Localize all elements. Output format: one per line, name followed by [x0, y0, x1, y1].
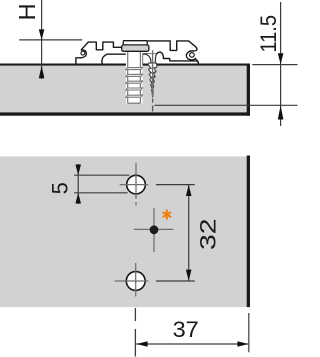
chipboard screw thread crests — [149, 67, 156, 90]
svg-text:5: 5 — [47, 182, 72, 194]
svg-text:H: H — [14, 3, 40, 20]
svg-text:32: 32 — [195, 218, 220, 250]
system screw hole top (5mm) — [120, 163, 149, 205]
svg-text:37: 37 — [173, 317, 199, 342]
chipboard screw (threaded, tapered) in panel — [148, 63, 157, 97]
chipboard screw centerline — [152, 50, 154, 111]
chipboard screw countersink funnel — [145, 54, 157, 64]
euro screw (pre-mounted system screw) shank in panel — [126, 51, 143, 103]
euro screw thread ridges — [126, 67, 143, 97]
chipboard screw tip — [151, 92, 153, 98]
system screw hole bottom — [115, 263, 149, 297]
orange asterisk — [163, 210, 170, 218]
svg-text:11.5: 11.5 — [256, 15, 281, 53]
dimension H — [14, 0, 83, 79]
dimension 5 — [47, 164, 129, 204]
cruciform center point marker — [134, 208, 174, 252]
mounting plate profile (side view outline) — [76, 41, 199, 65]
dimension 11.5 — [155, 2, 298, 126]
dimension 37 — [136, 313, 249, 352]
cabinet side panel (side elevation, top view) — [0, 64, 250, 116]
dimension 32 — [156, 185, 220, 281]
vertical dashed centerline below panel — [134, 308, 136, 357]
cabinet side panel (plan view, bottom) — [0, 156, 250, 308]
euro screw flange head — [122, 41, 149, 52]
